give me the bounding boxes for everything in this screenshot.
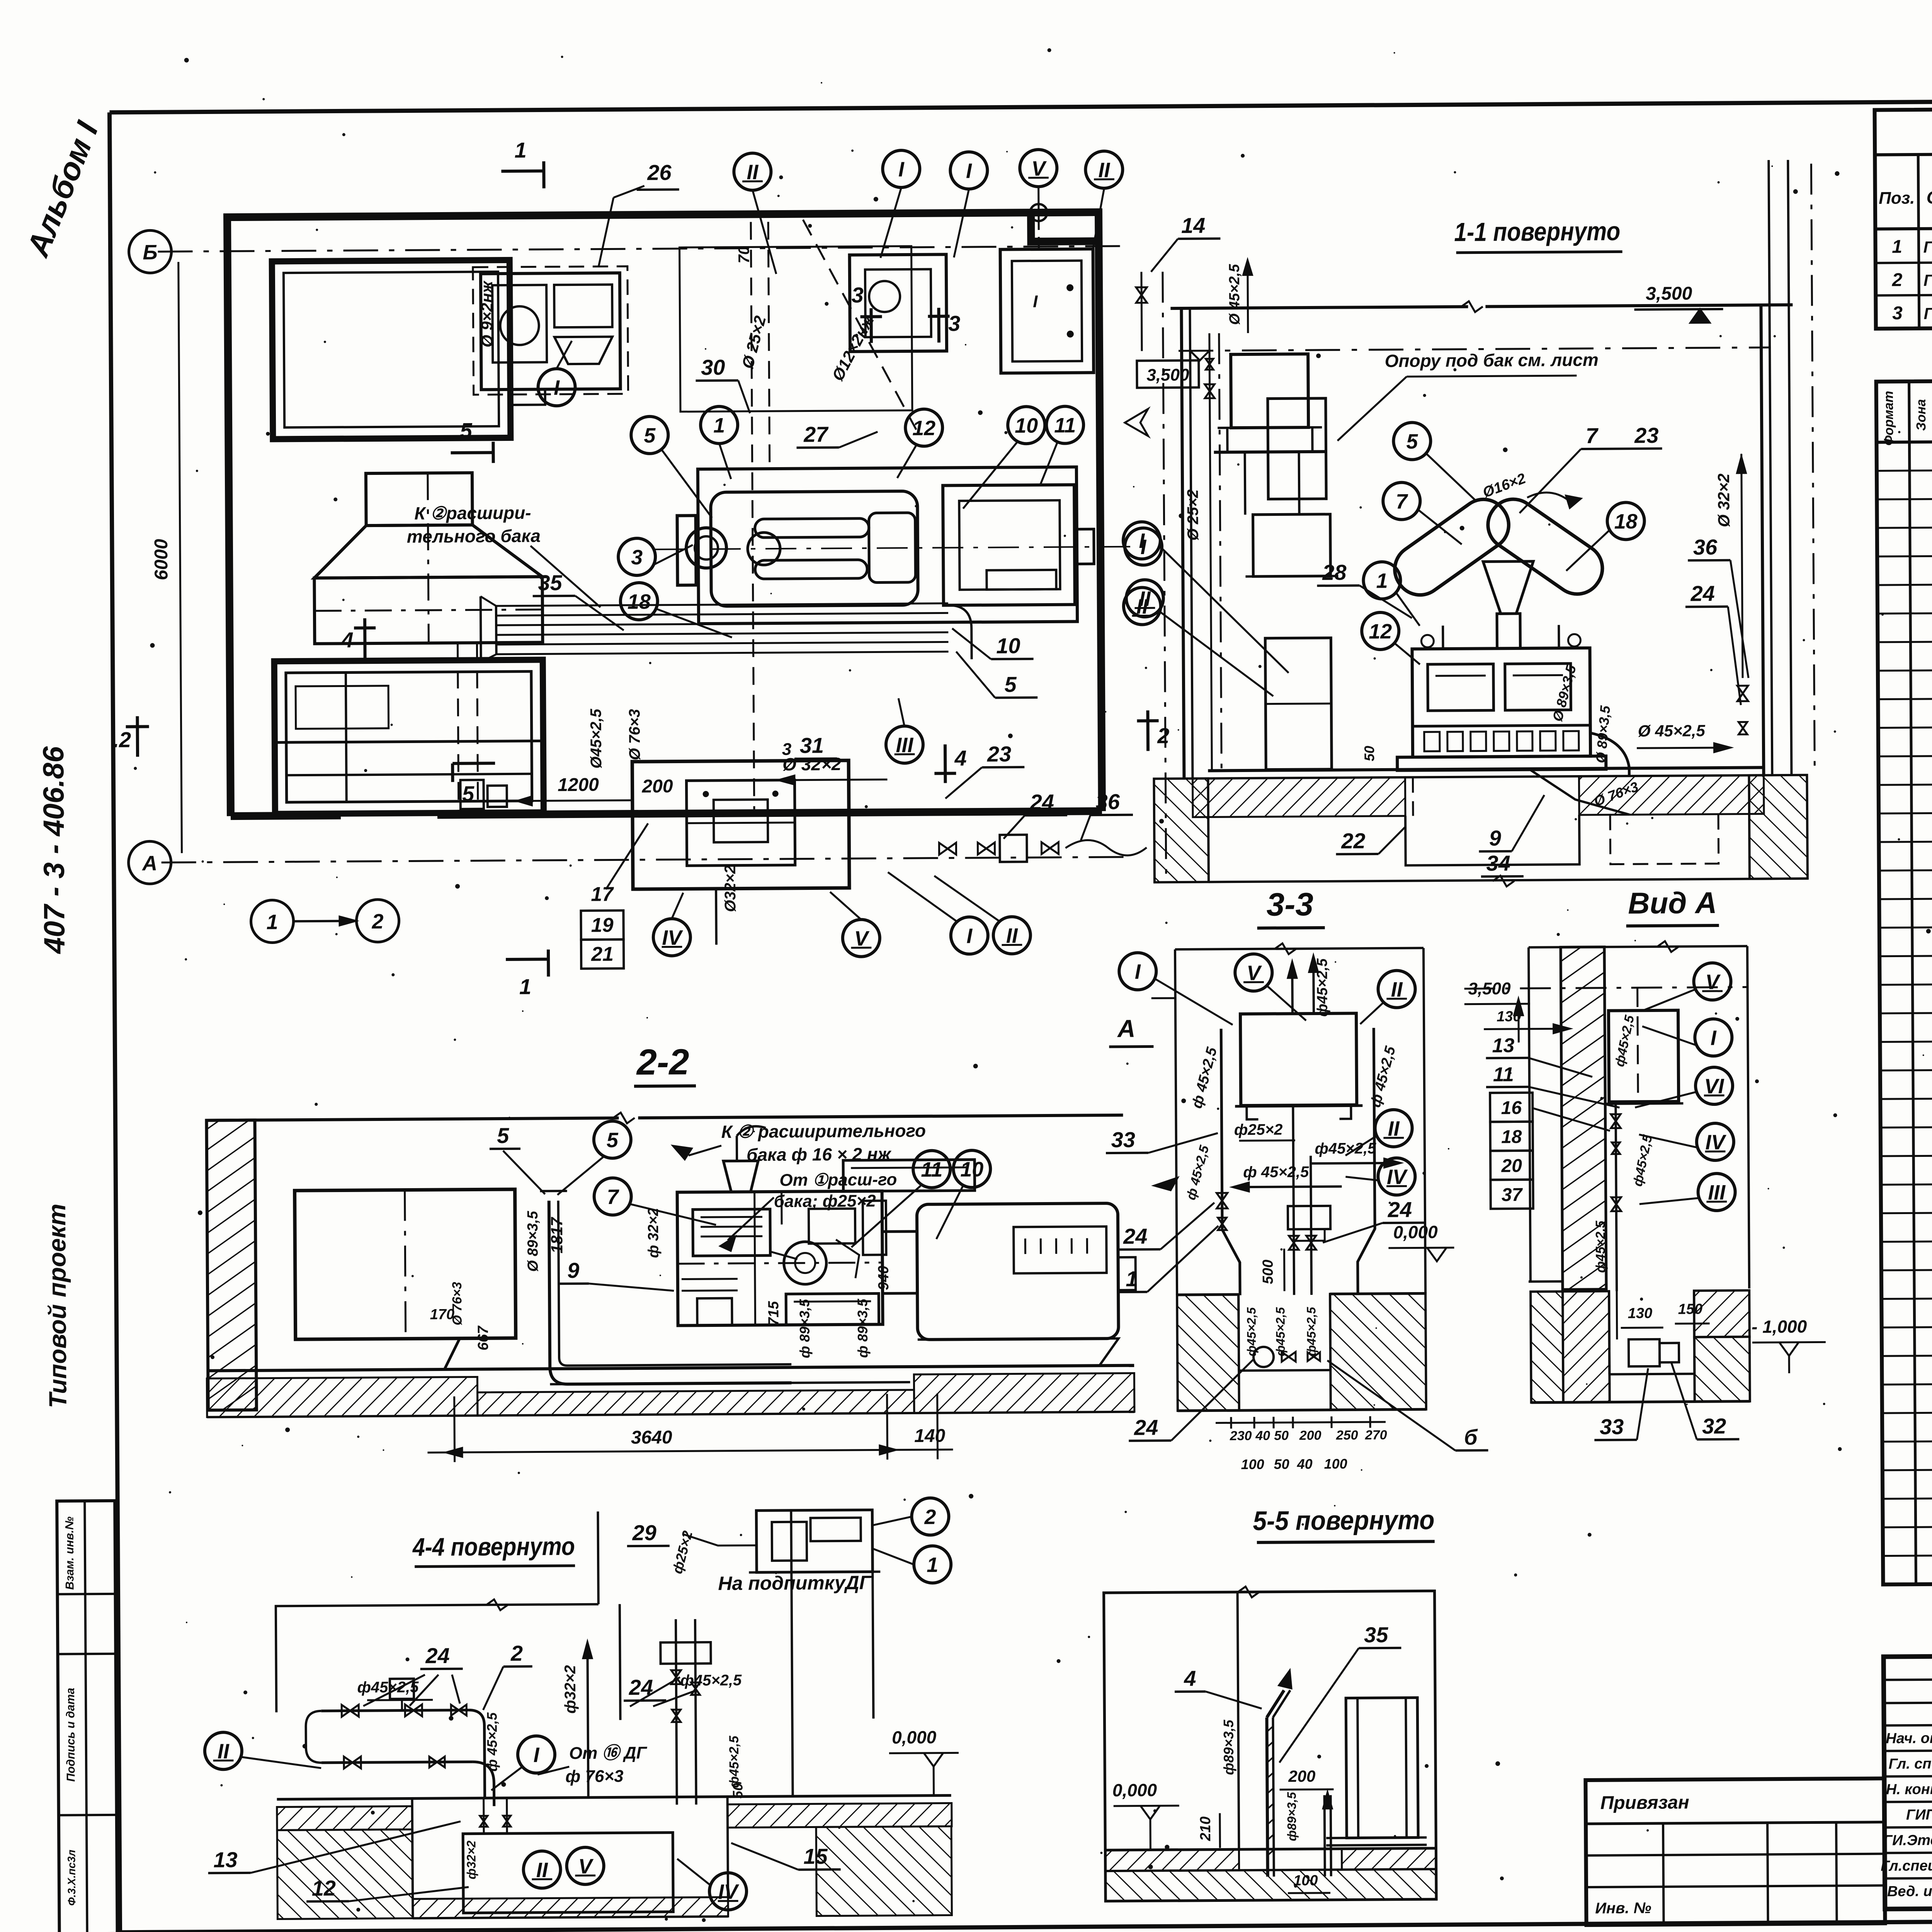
svg-text:Привязан: Привязан [1600, 1792, 1689, 1813]
svg-text:ф 32×2: ф 32×2 [645, 1208, 662, 1258]
svg-text:24: 24 [1690, 581, 1715, 605]
svg-text:5: 5 [460, 418, 472, 443]
svg-text:12: 12 [1369, 620, 1392, 643]
dashed enclosure 26 [473, 266, 628, 395]
parts list row 28 [1881, 1294, 1932, 1299]
section mark 5 lower [452, 762, 495, 765]
svg-text:I: I [966, 925, 973, 948]
svg-text:ф 45×2,5: ф 45×2,5 [484, 1712, 500, 1772]
pit pipes 44 [483, 1798, 485, 1833]
svg-text:Б: Б [143, 241, 158, 264]
svg-text:3-3: 3-3 [1266, 886, 1313, 923]
svg-text:35: 35 [538, 570, 563, 595]
callout 1 sec11 [1363, 562, 1401, 599]
plan callout I fuel pump [538, 369, 575, 406]
svg-text:36: 36 [1095, 789, 1120, 814]
pit pump view A [1609, 1291, 1609, 1374]
parts list row 5 [1878, 580, 1932, 585]
svg-text:50: 50 [1274, 1456, 1289, 1472]
lower pipe run 4-4 [321, 1762, 473, 1763]
parts list row 37 [1883, 1551, 1932, 1556]
callout 5 22 a [594, 1121, 631, 1158]
parts list row 24 [1881, 1151, 1932, 1156]
svg-text:ф45×2,5: ф45×2,5 [1304, 1306, 1318, 1356]
parts list row 33 [1882, 1437, 1932, 1442]
plan label 32x2 arrow [787, 779, 887, 780]
svg-text:23: 23 [1634, 423, 1659, 447]
svg-text:Взам. инв.№: Взам. инв.№ [63, 1517, 76, 1590]
svg-text:1-1 повернуто: 1-1 повернуто [1454, 216, 1620, 247]
pipes dashed vertical run [751, 222, 754, 809]
equipment top right small [850, 254, 947, 351]
svg-text:20: 20 [1501, 1156, 1522, 1176]
svg-text:4: 4 [954, 746, 967, 770]
svg-text:ГОСТ 8240-72: ГОСТ 8240-72 [1923, 237, 1932, 256]
valves and fittings bottom right [939, 843, 956, 855]
engine base [1397, 756, 1606, 770]
arrow left mid 33 [1154, 1178, 1177, 1190]
parts list row 17 [1879, 923, 1932, 928]
svg-text:1: 1 [927, 1553, 938, 1577]
svg-text:1: 1 [1126, 1267, 1138, 1291]
svg-text:Типовой проект: Типовой проект [43, 1204, 72, 1408]
standpipe 5-5 [1267, 1718, 1267, 1877]
svg-text:ф25×2: ф25×2 [1234, 1121, 1283, 1138]
callout II mid 33 [1375, 1110, 1412, 1147]
dim 3640 [453, 1396, 456, 1462]
plan callout 1 [701, 406, 738, 444]
svg-text:ГОСТ 2590-71: ГОСТ 2590-71 [1923, 304, 1932, 323]
plan callout 12 [905, 409, 943, 447]
section 1-1 group [1121, 160, 1815, 889]
plan callout IV [653, 918, 691, 956]
svg-text:тельного бака: тельного бака [407, 526, 541, 547]
svg-text:37: 37 [1502, 1185, 1523, 1205]
pit 4-4 [412, 1798, 413, 1918]
small pump bottom left [460, 780, 483, 809]
svg-text:200: 200 [1299, 1428, 1321, 1443]
building outer walls [227, 212, 1102, 816]
svg-text:22: 22 [1341, 828, 1366, 853]
svg-text:11: 11 [921, 1158, 942, 1181]
parts list row 32 [1882, 1408, 1932, 1413]
svg-text:бака ф 16 × 2 нж: бака ф 16 × 2 нж [747, 1144, 892, 1165]
foundation 4-4 [277, 1795, 951, 1799]
riser 32x2 4-4 [587, 1646, 588, 1798]
section mark 1 top [501, 169, 544, 173]
sidebar bottom boxes [57, 1501, 117, 1932]
svg-text:I: I [1033, 292, 1038, 311]
callout II pit 44 [523, 1851, 561, 1888]
callout V pit 44 [566, 1847, 604, 1885]
callout I viewA [1695, 1019, 1732, 1056]
left equipment in section [1268, 398, 1326, 499]
fuel tank section [1231, 354, 1308, 428]
svg-text:I: I [1711, 1026, 1717, 1049]
dashdot level line view A [1464, 987, 1748, 989]
plan callout III [886, 726, 923, 764]
callout 1 44 [914, 1546, 951, 1583]
callout 18 sec11 [1607, 502, 1645, 540]
plan arrow right middle [1125, 409, 1148, 436]
svg-text:Подпись и дата: Подпись и дата [64, 1688, 77, 1782]
level 3.500 left [1137, 361, 1199, 388]
parts list row 9 [1878, 695, 1932, 699]
plan callout II top [734, 153, 771, 190]
engine block section [1412, 648, 1591, 757]
pit 3-3 [1238, 1294, 1239, 1371]
callout I sec11 [1123, 522, 1161, 559]
ceiling line [1170, 307, 1468, 308]
floor 2-2 [207, 1366, 1134, 1371]
svg-text:ф45×2,5: ф45×2,5 [727, 1735, 742, 1788]
svg-text:Ø 76×3: Ø 76×3 [626, 709, 643, 760]
plan view group [110, 134, 1171, 1001]
parts list row 13 [1879, 809, 1932, 813]
floor line section 1-1 [1208, 767, 1764, 770]
small pipe 5-5 [1325, 1795, 1325, 1876]
parts list row 21 [1880, 1037, 1932, 1042]
base pedestal under engine [550, 1382, 910, 1384]
svg-text:2: 2 [1892, 270, 1903, 290]
section 5-5 group [1103, 1505, 1437, 1901]
engine intake funnel [1483, 561, 1534, 614]
svg-text:270: 270 [1365, 1428, 1387, 1442]
svg-text:33: 33 [1111, 1128, 1135, 1152]
svg-text:ф45×2,5: ф45×2,5 [1244, 1307, 1259, 1356]
parts list row 18 [1879, 952, 1932, 956]
svg-text:ф 76×3: ф 76×3 [565, 1767, 624, 1786]
right pipe 3-3 [1356, 1028, 1375, 1294]
svg-text:7: 7 [1396, 490, 1408, 513]
vent symbol above tank [1038, 218, 1040, 249]
svg-text:12: 12 [912, 417, 935, 440]
svg-text:2: 2 [924, 1505, 936, 1529]
svg-text:Инв. №: Инв. № [1595, 1900, 1651, 1917]
callout 5 sec11 [1393, 422, 1431, 460]
svg-text:1817: 1817 [548, 1217, 566, 1253]
svg-text:407 - 3 - 406.86: 407 - 3 - 406.86 [37, 746, 71, 955]
dimension 6000 vertical [179, 262, 182, 853]
svg-text:На подпиткуДГ: На подпиткуДГ [718, 1572, 872, 1594]
branch 45 right 3-3 [1311, 1163, 1392, 1163]
cabinet 5-5 [1346, 1697, 1418, 1838]
svg-text:5-5 повернуто: 5-5 повернуто [1253, 1505, 1434, 1536]
pipes left of tank [1209, 333, 1212, 770]
pipe down view A [1616, 1104, 1617, 1291]
plan callout V bottom [843, 919, 880, 957]
center pipes 3-3 [1293, 1106, 1294, 1295]
callout VI viewA [1696, 1067, 1733, 1105]
right wall lines [1761, 305, 1764, 774]
plan callout I bottom [951, 917, 988, 954]
svg-text:1: 1 [713, 414, 725, 437]
callout 2 44 [912, 1498, 949, 1535]
pipe bundle horizontal [496, 603, 948, 606]
left pier hatched [1154, 779, 1209, 883]
svg-text:70: 70 [735, 246, 752, 264]
svg-text:13: 13 [1492, 1034, 1514, 1057]
plan callout 11 [1046, 406, 1084, 444]
svg-text:Ø 25×2: Ø 25×2 [1184, 489, 1202, 541]
foundation 3-3 [1177, 1293, 1238, 1296]
scan speckles [965, 344, 966, 345]
svg-text:33: 33 [1600, 1414, 1624, 1439]
section mark 3 pair top [869, 308, 873, 343]
plan callout 10 [1008, 406, 1045, 444]
svg-text:I: I [554, 376, 560, 400]
grid circle 1 [251, 900, 294, 943]
svg-text:ф45×2,5: ф45×2,5 [1593, 1220, 1608, 1273]
svg-text:Ф.3.Х.пс3л: Ф.3.Х.пс3л [65, 1850, 78, 1906]
svg-text:18: 18 [1501, 1127, 1522, 1147]
svg-text:18: 18 [628, 590, 651, 613]
svg-text:Ø 45×2,5: Ø 45×2,5 [1226, 264, 1243, 325]
parts list row 10 [1878, 723, 1932, 728]
parts list row 11 [1878, 752, 1932, 756]
svg-text:5: 5 [497, 1123, 509, 1148]
svg-text:40: 40 [1255, 1429, 1270, 1443]
svg-text:13: 13 [213, 1847, 238, 1872]
svg-text:К ②расшири-: К ②расшири- [414, 503, 531, 524]
svg-text:2: 2 [510, 1641, 523, 1665]
svg-text:210: 210 [1197, 1816, 1214, 1842]
svg-text:2-2: 2-2 [636, 1041, 689, 1082]
svg-text:Опору под бак см. лист: Опору под бак см. лист [1384, 350, 1598, 371]
callout IV mid 33 [1378, 1158, 1415, 1195]
fuel pump unit top [481, 273, 621, 389]
svg-text:1: 1 [1376, 569, 1388, 592]
svg-text:3,500: 3,500 [1146, 366, 1189, 385]
svg-text:10: 10 [1015, 414, 1038, 437]
fuel tank top right [1000, 249, 1094, 373]
svg-text:Н. контр.: Н. контр. [1886, 1781, 1932, 1798]
parts list row 22 [1880, 1094, 1932, 1099]
svg-text:Зона: Зона [1914, 399, 1929, 431]
grid circle 2 [356, 900, 399, 942]
svg-text:1: 1 [266, 910, 278, 934]
svg-text:I: I [966, 159, 972, 182]
plan callout I top a [883, 150, 920, 188]
svg-text:34: 34 [1486, 851, 1510, 875]
svg-text:16: 16 [1501, 1098, 1522, 1118]
svg-text:4-4 повернуто: 4-4 повернуто [412, 1532, 575, 1561]
svg-text:130: 130 [1628, 1305, 1653, 1321]
svg-text:940: 940 [876, 1266, 892, 1291]
svg-text:I: I [1139, 529, 1145, 553]
svg-text:- 1,000: - 1,000 [1752, 1316, 1807, 1337]
svg-text:А: А [1117, 1015, 1136, 1043]
section mark 4 right [944, 744, 947, 783]
parts list row 26 [1881, 1237, 1932, 1242]
pipe bend to pit [1590, 733, 1629, 776]
svg-text:5: 5 [1004, 672, 1017, 696]
svg-text:4: 4 [341, 628, 354, 652]
radiator [677, 515, 696, 585]
svg-text:32: 32 [1702, 1414, 1726, 1438]
svg-text:500: 500 [1260, 1260, 1276, 1284]
section 3-3 group [1104, 885, 1488, 1473]
svg-text:2: 2 [371, 910, 383, 933]
svg-text:17: 17 [591, 883, 614, 905]
svg-text:200: 200 [641, 776, 673, 797]
tank 3-3 [1240, 1013, 1357, 1105]
section mark 1 bottom [506, 957, 548, 961]
svg-text:ГОСТ 8509-72: ГОСТ 8509-72 [1923, 270, 1932, 289]
svg-text:Ø 32×2: Ø 32×2 [1714, 473, 1733, 527]
generator 2-2 [917, 1203, 1119, 1340]
plan callout II top right [1085, 151, 1123, 189]
engine 2-2 [843, 1160, 975, 1191]
svg-text:140: 140 [914, 1426, 946, 1446]
svg-text:Вид А: Вид А [1628, 886, 1717, 920]
svg-text:667: 667 [475, 1325, 492, 1351]
svg-text:ф32×2: ф32×2 [464, 1840, 478, 1879]
svg-text:150: 150 [1678, 1301, 1703, 1317]
svg-text:1: 1 [519, 975, 532, 999]
plan right side callouts I II [1125, 528, 1162, 565]
svg-text:I: I [898, 158, 905, 181]
plan callout 18 [621, 583, 658, 620]
svg-text:ГИП: ГИП [1906, 1807, 1932, 1823]
svg-text:ф 45×2,5: ф 45×2,5 [1243, 1163, 1309, 1181]
svg-text:10: 10 [960, 1158, 983, 1181]
svg-text:11: 11 [1493, 1063, 1514, 1086]
machine centerline [654, 547, 1141, 549]
parts list row 20 [1880, 1009, 1932, 1013]
svg-text:21: 21 [591, 943, 614, 965]
svg-text:Вед. инж.: Вед. инж. [1887, 1883, 1932, 1900]
svg-text:Гл.спец. т.: Гл.спец. т. [1881, 1857, 1932, 1874]
svg-text:24: 24 [1134, 1415, 1158, 1439]
parts list row section header [1881, 1209, 1932, 1213]
filter box 4-4 [390, 1679, 414, 1699]
parts list row 23 [1881, 1123, 1932, 1128]
svg-text:24: 24 [425, 1643, 450, 1668]
callout I 33 [1119, 952, 1156, 990]
callout 7 sec11 [1383, 482, 1420, 520]
section mark 5 upper [451, 451, 493, 454]
svg-text:Ø 89×3,5: Ø 89×3,5 [525, 1211, 541, 1272]
plan callout II bottom [993, 917, 1031, 954]
svg-text:30: 30 [701, 355, 725, 379]
svg-text:I: I [533, 1743, 539, 1767]
svg-text:бака; ф25×2: бака; ф25×2 [774, 1192, 876, 1211]
svg-text:715: 715 [765, 1301, 782, 1326]
svg-text:Нач. отд.: Нач. отд. [1886, 1730, 1932, 1747]
ceiling line 2-2 [206, 1118, 619, 1120]
callout 11 22 [913, 1150, 951, 1188]
svg-text:От ⑯ ДГ: От ⑯ ДГ [569, 1743, 648, 1763]
axis A dash-dot line [162, 857, 1128, 862]
parts list row 34 [1883, 1466, 1932, 1470]
svg-text:ф45×2,5: ф45×2,5 [1273, 1307, 1287, 1356]
svg-text:9: 9 [567, 1258, 580, 1282]
floor 5-5 [1105, 1848, 1436, 1850]
svg-text:3: 3 [1892, 303, 1903, 323]
svg-text:Поз.: Поз. [1879, 189, 1915, 208]
exhaust hood [366, 473, 473, 526]
svg-text:200: 200 [1288, 1767, 1315, 1785]
svg-text:250: 250 [1336, 1428, 1358, 1442]
callout IV 44 [709, 1872, 747, 1910]
outline 5-5 [1104, 1591, 1437, 1901]
svg-text:28: 28 [1322, 560, 1347, 584]
left pipe 3-3 [1221, 1029, 1240, 1295]
section 4-4 group [203, 1498, 959, 1919]
svg-text:27: 27 [803, 422, 829, 446]
svg-text:7: 7 [607, 1185, 619, 1209]
upper pipe run 4-4 [321, 1710, 469, 1711]
callout V viewA [1694, 963, 1731, 1000]
pipe to pump [683, 1534, 757, 1546]
callout III viewA [1698, 1173, 1735, 1211]
svg-text:7: 7 [1586, 423, 1599, 448]
parts list row 1 [1877, 466, 1932, 471]
pipe right side 32x2 [1742, 454, 1743, 678]
foundation view A [1529, 1281, 1563, 1290]
pipe elbow right [948, 605, 972, 659]
svg-text:ф32×2: ф32×2 [562, 1665, 579, 1714]
svg-text:3640: 3640 [631, 1427, 672, 1448]
svg-text:1: 1 [514, 138, 527, 162]
svg-text:3: 3 [948, 311, 961, 335]
svg-text:3,500: 3,500 [1646, 283, 1692, 304]
pipes to bottom room [457, 643, 459, 811]
svg-text:24: 24 [1029, 790, 1054, 814]
foundation hatch band [1192, 777, 1405, 817]
generator plan [943, 485, 1075, 605]
view A group [1464, 885, 1826, 1440]
callout IV viewA [1697, 1123, 1734, 1161]
svg-text:А: А [141, 852, 157, 875]
parts list row 31 [1882, 1380, 1932, 1384]
parts list row 27 [1881, 1265, 1932, 1270]
svg-text:50: 50 [1274, 1428, 1289, 1443]
valve hookup left top [1136, 287, 1147, 303]
tank view A [1609, 1010, 1679, 1102]
svg-text:ф89×3,5: ф89×3,5 [1285, 1792, 1299, 1841]
svg-text:10: 10 [996, 633, 1020, 658]
parts list row 30 [1882, 1351, 1932, 1356]
parts list row 12 [1879, 780, 1932, 785]
parts list verticals [1909, 381, 1916, 1584]
svg-text:.2: .2 [113, 728, 131, 752]
hall partition thin rect [680, 246, 912, 412]
svg-text:5: 5 [462, 782, 474, 806]
svg-text:19: 19 [591, 914, 614, 936]
svg-text:Гл. спец.: Гл. спец. [1888, 1756, 1932, 1772]
svg-text:I: I [1135, 960, 1141, 983]
svg-text:24: 24 [1388, 1197, 1412, 1222]
svg-text:Формат: Формат [1881, 391, 1896, 446]
svg-text:1200: 1200 [558, 775, 599, 796]
svg-text:Обозначен.: Обозначен. [1926, 187, 1932, 207]
parts list row 6 [1878, 609, 1932, 614]
left wall lines [1181, 308, 1184, 778]
svg-text:1: 1 [1892, 236, 1902, 257]
callout 7 22 [594, 1178, 631, 1215]
svg-text:100: 100 [1241, 1456, 1264, 1472]
plan callout 3 [618, 538, 656, 576]
svg-text:Ø 76×3: Ø 76×3 [450, 1282, 465, 1325]
svg-text:2: 2 [1157, 723, 1170, 748]
parts list row section header [1880, 1066, 1932, 1070]
left equipment cabinet [295, 1189, 516, 1339]
diesel generator set plan [698, 467, 1077, 624]
parts list row 2 [1877, 495, 1932, 499]
svg-text:Ø32×2: Ø32×2 [722, 865, 739, 912]
